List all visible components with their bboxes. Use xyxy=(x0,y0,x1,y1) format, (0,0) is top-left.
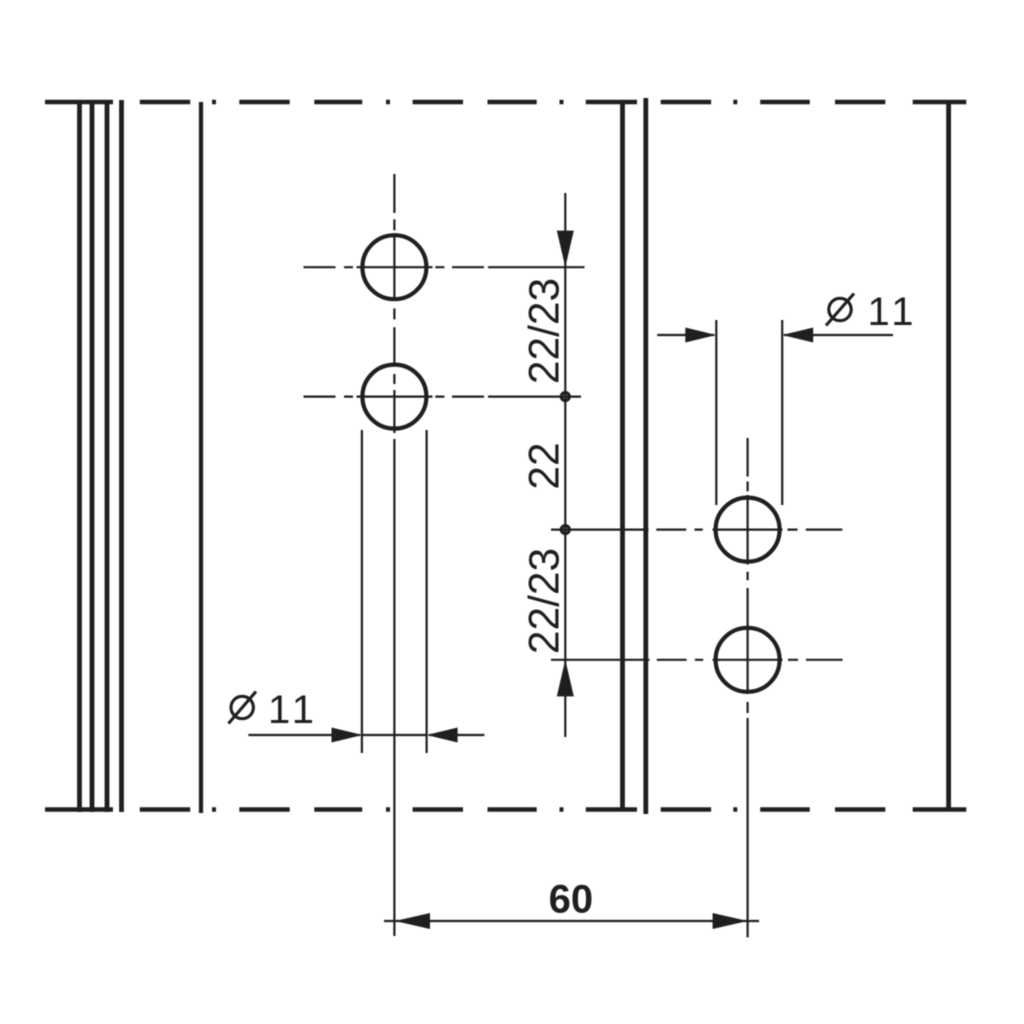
arrowhead right dim left-pointing xyxy=(782,328,813,343)
svg-text:22: 22 xyxy=(522,442,569,489)
vertical chain dimension line xyxy=(564,193,566,737)
centerline horizontal hole top-right xyxy=(551,528,842,530)
hole bottom-right xyxy=(716,628,780,692)
centerline vertical right holes xyxy=(746,438,748,937)
extension line left hole edge right xyxy=(426,430,428,753)
left profile edge line 2 xyxy=(90,100,95,812)
hole top-right xyxy=(716,498,780,562)
dimension line diameter 11 right xyxy=(657,334,893,336)
left profile edge line 3 xyxy=(105,100,110,812)
centerline horizontal hole bottom-left xyxy=(304,396,582,398)
arrowhead right dim right-pointing xyxy=(685,328,716,343)
bottom phantom/chain border line xyxy=(45,807,966,812)
extension line right hole edge left xyxy=(715,320,717,505)
chain node lower xyxy=(561,526,569,534)
centerline vertical left holes xyxy=(393,174,395,936)
centerline horizontal hole bottom-right xyxy=(551,659,843,661)
arrowhead left dim right-pointing xyxy=(332,728,363,743)
right edge line xyxy=(946,102,951,810)
middle edge line 1 xyxy=(620,102,625,810)
extension line left hole edge left xyxy=(361,430,363,753)
label diameter symbol right xyxy=(826,294,854,326)
label diameter symbol left xyxy=(229,692,257,724)
svg-text:60: 60 xyxy=(549,878,594,922)
left profile edge line 4 xyxy=(119,100,124,812)
arrowhead 60 left-pointing xyxy=(395,913,430,929)
arrowhead chain down-pointing xyxy=(557,231,574,268)
arrowhead 60 right-pointing xyxy=(713,913,748,929)
left inner edge line xyxy=(199,102,203,813)
svg-text:22/23: 22/23 xyxy=(522,548,569,654)
middle edge line 2 xyxy=(643,98,648,814)
svg-text:11: 11 xyxy=(268,688,319,732)
hole bottom-left xyxy=(362,365,426,429)
left profile edge line 1 xyxy=(77,100,82,812)
centerline horizontal hole top-left xyxy=(304,266,585,268)
arrowhead chain up-pointing xyxy=(557,660,574,697)
top phantom/chain border line xyxy=(45,100,966,105)
dimension line 60 bottom xyxy=(384,920,759,922)
svg-text:11: 11 xyxy=(868,290,919,334)
chain node upper xyxy=(561,393,569,401)
dimension line diameter 11 left xyxy=(248,734,484,736)
arrowhead left dim left-pointing xyxy=(427,728,458,743)
extension line right hole edge right xyxy=(781,320,783,505)
svg-text:22/23: 22/23 xyxy=(522,278,569,384)
hole top-left xyxy=(362,235,426,299)
